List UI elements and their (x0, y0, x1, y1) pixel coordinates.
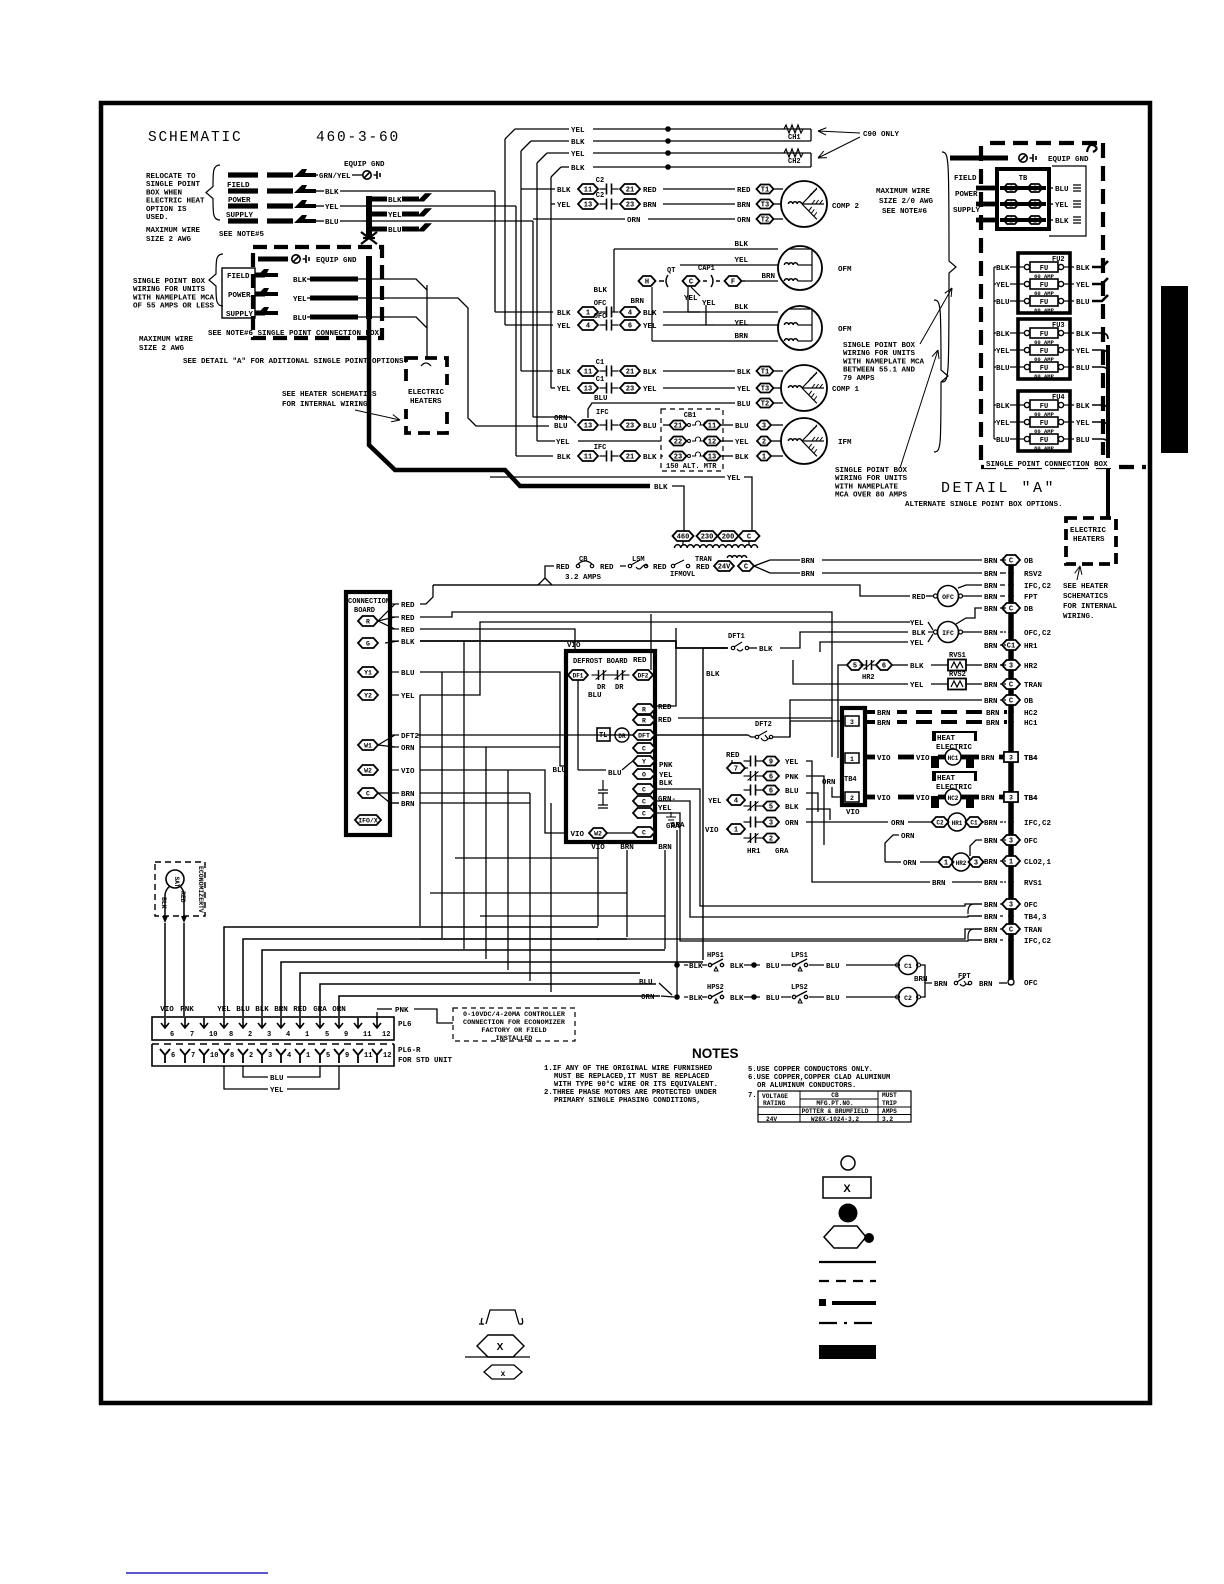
svg-text:BLK: BLK (593, 287, 607, 295)
svg-text:BLU: BLU (1076, 437, 1090, 445)
svg-text:MAXIMUM WIRE: MAXIMUM WIRE (139, 336, 194, 344)
svg-text:TB: TB (1019, 175, 1028, 183)
svg-text:FIELD: FIELD (227, 273, 250, 281)
svg-text:13: 13 (584, 423, 592, 431)
svg-text:W1: W1 (364, 743, 372, 750)
svg-text:BLU: BLU (826, 963, 840, 971)
svg-text:ORN: ORN (901, 833, 915, 841)
svg-text:BRN: BRN (984, 571, 998, 579)
svg-text:NOTES: NOTES (692, 1046, 739, 1061)
svg-text:BLK: BLK (571, 139, 585, 147)
svg-text:T1: T1 (761, 187, 769, 195)
svg-text:HR1: HR1 (1024, 643, 1038, 651)
svg-text:BLK: BLK (643, 310, 657, 318)
svg-text:X: X (497, 1342, 504, 1353)
svg-text:3.2 AMPS: 3.2 AMPS (565, 574, 602, 582)
svg-text:BLU: BLU (766, 995, 780, 1003)
svg-text:POTTER & BRUMFIELD: POTTER & BRUMFIELD (802, 1108, 869, 1115)
svg-text:200: 200 (722, 534, 735, 542)
svg-text:LPS2: LPS2 (791, 984, 808, 992)
svg-text:OFC: OFC (1024, 838, 1038, 846)
svg-text:YEL: YEL (388, 212, 402, 220)
svg-text:8: 8 (229, 1031, 233, 1039)
svg-text:BLK: BLK (388, 197, 402, 205)
svg-text:3: 3 (268, 1052, 272, 1060)
svg-text:BRN: BRN (979, 981, 993, 989)
svg-text:11: 11 (584, 454, 592, 462)
svg-text:RED: RED (653, 564, 667, 572)
svg-text:1: 1 (762, 454, 766, 462)
svg-text:C: C (642, 830, 646, 837)
svg-text:6: 6 (769, 788, 773, 796)
svg-text:BLU: BLU (554, 423, 568, 431)
svg-text:C1: C1 (904, 963, 912, 970)
svg-text:FIELD: FIELD (954, 175, 977, 183)
svg-text:BLK: BLK (325, 189, 339, 197)
svg-text:YEL: YEL (571, 127, 585, 135)
svg-text:OFC,C2: OFC,C2 (1024, 630, 1052, 638)
svg-text:T2: T2 (761, 217, 769, 225)
svg-text:12: 12 (382, 1031, 390, 1039)
svg-text:OFC: OFC (1024, 980, 1038, 988)
svg-text:2.THREE PHASE MOTORS ARE PROTE: 2.THREE PHASE MOTORS ARE PROTECTED UNDER (544, 1089, 717, 1097)
svg-text:YEL: YEL (1055, 202, 1069, 210)
svg-text:4: 4 (287, 1052, 291, 1060)
svg-text:YEL: YEL (557, 202, 571, 210)
svg-text:2: 2 (249, 1052, 253, 1060)
svg-text:EQUIP GND: EQUIP GND (1048, 156, 1089, 164)
svg-text:YEL: YEL (1076, 420, 1090, 428)
svg-text:YEL: YEL (996, 420, 1010, 428)
svg-text:1: 1 (850, 756, 854, 763)
svg-text:HPS2: HPS2 (707, 984, 724, 992)
svg-text:ELECTRIC HEAT: ELECTRIC HEAT (146, 198, 205, 206)
svg-text:T2: T2 (761, 401, 769, 409)
svg-text:YEL: YEL (571, 151, 585, 159)
svg-text:DFT: DFT (638, 733, 650, 740)
svg-text:BRN: BRN (801, 558, 815, 566)
svg-text:YEL: YEL (996, 348, 1010, 356)
svg-text:YEL: YEL (325, 204, 339, 212)
svg-text:C: C (366, 791, 370, 798)
svg-text:HR1: HR1 (747, 848, 761, 856)
svg-text:MUST: MUST (882, 1092, 897, 1099)
svg-text:5: 5 (853, 663, 857, 671)
svg-text:C: C (689, 279, 693, 287)
svg-text:BLK: BLK (734, 304, 748, 312)
svg-text:FU: FU (1040, 299, 1048, 307)
svg-text:YEL: YEL (734, 320, 748, 328)
svg-text:YEL: YEL (270, 1087, 284, 1095)
svg-text:BRN: BRN (643, 202, 657, 210)
svg-text:RED: RED (293, 1006, 307, 1014)
svg-text:COMP 2: COMP 2 (832, 203, 860, 211)
svg-text:9: 9 (344, 1031, 348, 1039)
svg-text:DFT1: DFT1 (728, 633, 745, 641)
svg-text:VIO: VIO (877, 755, 891, 763)
svg-text:BLK: BLK (557, 187, 571, 195)
svg-text:FU: FU (1040, 331, 1048, 339)
svg-text:BRN: BRN (984, 594, 998, 602)
svg-text:GRA: GRA (313, 1006, 327, 1014)
svg-text:11: 11 (363, 1031, 371, 1039)
svg-text:BLU: BLU (766, 963, 780, 971)
svg-text:YEL: YEL (1076, 348, 1090, 356)
svg-text:CH1: CH1 (788, 134, 801, 142)
svg-text:YEL: YEL (557, 323, 571, 331)
svg-text:C: C (642, 787, 646, 794)
svg-text:ORN: ORN (785, 820, 799, 828)
svg-text:3: 3 (1009, 902, 1013, 910)
svg-text:WITH NAMEPLATE: WITH NAMEPLATE (835, 483, 899, 491)
svg-text:1: 1 (305, 1031, 309, 1039)
svg-text:BLK: BLK (910, 663, 924, 671)
svg-text:ORN: ORN (401, 745, 415, 753)
svg-text:13: 13 (584, 202, 592, 210)
svg-text:HR1: HR1 (952, 820, 963, 827)
svg-text:C: C (1009, 927, 1013, 935)
svg-text:11: 11 (364, 1052, 372, 1060)
svg-text:OFM: OFM (838, 266, 852, 274)
svg-text:BLK: BLK (912, 630, 926, 638)
svg-text:HEAT: HEAT (937, 735, 956, 743)
svg-text:BRN: BRN (981, 795, 995, 803)
svg-text:TRIP: TRIP (882, 1100, 897, 1107)
svg-text:IFC,C2: IFC,C2 (1024, 820, 1052, 828)
svg-text:WITH NAMEPLATE MCA: WITH NAMEPLATE MCA (133, 294, 215, 302)
svg-text:11: 11 (584, 369, 592, 377)
svg-text:BLU: BLU (401, 670, 415, 678)
svg-text:BRN: BRN (984, 682, 998, 690)
svg-text:YEL: YEL (643, 386, 657, 394)
svg-text:BLU: BLU (325, 219, 339, 227)
svg-text:BLU: BLU (270, 1075, 284, 1083)
svg-text:EQUIP GND: EQUIP GND (316, 257, 357, 265)
svg-text:RED: RED (912, 594, 926, 602)
svg-text:BRN: BRN (984, 698, 998, 706)
svg-text:BLU: BLU (639, 979, 653, 987)
svg-text:C: C (642, 799, 646, 806)
svg-text:C: C (1009, 698, 1013, 706)
svg-text:SIZE 2 AWG: SIZE 2 AWG (139, 345, 185, 353)
svg-text:C: C (1009, 682, 1013, 690)
svg-text:HEATERS: HEATERS (1073, 536, 1105, 544)
svg-text:RED: RED (600, 564, 614, 572)
svg-text:BLU: BLU (996, 299, 1010, 307)
svg-text:DB: DB (1024, 606, 1034, 614)
svg-text:MAXIMUM WIRE: MAXIMUM WIRE (876, 188, 931, 196)
svg-text:YEL: YEL (737, 386, 751, 394)
svg-text:IFC,C2: IFC,C2 (1024, 938, 1052, 946)
svg-text:21: 21 (626, 187, 634, 195)
svg-text:BRN: BRN (984, 938, 998, 946)
svg-text:LPS1: LPS1 (791, 952, 808, 960)
svg-text:BOARD: BOARD (354, 607, 375, 615)
svg-text:VIO: VIO (401, 768, 415, 776)
svg-text:C1: C1 (970, 820, 978, 827)
svg-text:IFC: IFC (596, 409, 609, 417)
svg-text:DR: DR (618, 733, 626, 740)
svg-text:6: 6 (171, 1052, 175, 1060)
svg-text:BRN: BRN (734, 333, 748, 341)
svg-text:ELECTRIC: ELECTRIC (1070, 527, 1107, 535)
svg-text:RED: RED (696, 564, 710, 572)
svg-text:RED: RED (658, 717, 672, 725)
svg-text:YEL: YEL (910, 682, 924, 690)
svg-text:SCHEMATICS: SCHEMATICS (1063, 593, 1109, 601)
svg-text:OF 55 AMPS OR LESS: OF 55 AMPS OR LESS (133, 303, 215, 311)
svg-text:ORN: ORN (891, 820, 905, 828)
svg-text:60 AMP: 60 AMP (1034, 307, 1055, 314)
svg-text:WIRING FOR UNITS: WIRING FOR UNITS (133, 286, 206, 294)
svg-text:1: 1 (306, 1052, 310, 1060)
svg-text:SUPPLY: SUPPLY (226, 311, 254, 319)
svg-text:ORN: ORN (737, 217, 751, 225)
svg-text:5: 5 (326, 1052, 330, 1060)
svg-text:BLU: BLU (1076, 299, 1090, 307)
svg-text:23: 23 (626, 386, 634, 394)
svg-text:BLK: BLK (643, 369, 657, 377)
svg-text:BLK: BLK (996, 403, 1010, 411)
svg-text:BRN: BRN (984, 859, 998, 867)
svg-text:24V: 24V (766, 1116, 777, 1123)
svg-text:BLU: BLU (826, 995, 840, 1003)
svg-text:BLU: BLU (996, 365, 1010, 373)
svg-text:YEL: YEL (702, 300, 716, 308)
svg-text:HC1: HC1 (1024, 720, 1038, 728)
svg-text:SAT: SAT (173, 877, 180, 888)
svg-text:IFMOVL: IFMOVL (670, 571, 695, 579)
svg-text:T3: T3 (761, 386, 769, 394)
svg-text:3: 3 (769, 820, 773, 828)
svg-text:GRN/YEL: GRN/YEL (319, 173, 351, 181)
svg-text:ALTERNATE SINGLE POINT BOX OPT: ALTERNATE SINGLE POINT BOX OPTIONS. (905, 501, 1063, 509)
svg-text:ORN: ORN (627, 217, 641, 225)
svg-text:PNK: PNK (659, 762, 673, 770)
svg-text:RSV2: RSV2 (1024, 571, 1043, 579)
svg-text:YEL: YEL (996, 282, 1010, 290)
svg-text:WIRING FOR UNITS: WIRING FOR UNITS (835, 475, 908, 483)
svg-text:DFT2: DFT2 (755, 721, 772, 729)
svg-text:GRN-: GRN- (658, 796, 676, 804)
svg-text:ORN: ORN (554, 415, 568, 423)
svg-text:BRN: BRN (984, 927, 998, 935)
svg-text:6: 6 (628, 323, 632, 331)
svg-text:BRN: BRN (984, 902, 998, 910)
svg-text:BRN: BRN (984, 558, 998, 566)
svg-text:3: 3 (850, 719, 854, 726)
svg-text:12: 12 (383, 1052, 391, 1060)
svg-text:1: 1 (944, 860, 948, 868)
svg-text:FOR INTERNAL WIRING.: FOR INTERNAL WIRING. (282, 401, 372, 409)
svg-text:VIO: VIO (160, 1006, 174, 1014)
svg-text:RED: RED (401, 627, 415, 635)
svg-text:4: 4 (734, 798, 738, 806)
svg-text:BLK: BLK (643, 454, 657, 462)
svg-text:BLU: BLU (594, 395, 608, 403)
svg-text:RELOCATE TO: RELOCATE TO (146, 173, 196, 181)
svg-text:FOR INTERNAL: FOR INTERNAL (1063, 603, 1118, 611)
svg-text:460: 460 (677, 534, 690, 542)
svg-text:ORN: ORN (903, 860, 917, 868)
svg-text:Y2: Y2 (364, 693, 372, 700)
svg-text:TB4: TB4 (844, 776, 857, 784)
svg-text:BLK: BLK (735, 454, 749, 462)
svg-text:BLK: BLK (401, 639, 415, 647)
svg-text:10: 10 (210, 1052, 218, 1060)
svg-text:G: G (366, 641, 370, 648)
svg-text:OR ALUMINUM CONDUCTORS.: OR ALUMINUM CONDUCTORS. (757, 1082, 856, 1090)
svg-text:BLU: BLU (1076, 365, 1090, 373)
svg-text:BRN: BRN (981, 755, 995, 763)
svg-text:OFC: OFC (942, 594, 954, 601)
svg-text:OFC: OFC (1024, 902, 1038, 910)
svg-text:H: H (645, 279, 649, 287)
svg-text:BLK: BLK (734, 241, 748, 249)
svg-text:T3: T3 (761, 202, 769, 210)
svg-text:YEL: YEL (659, 772, 673, 780)
svg-text:BRN: BRN (984, 630, 998, 638)
svg-text:SINGLE POINT BOX: SINGLE POINT BOX (133, 278, 206, 286)
svg-text:COMP 1: COMP 1 (832, 386, 860, 394)
svg-text:HR2: HR2 (1024, 663, 1038, 671)
svg-text:8: 8 (230, 1052, 234, 1060)
svg-text:WITH TYPE 90°C WIRE OR ITS EQU: WITH TYPE 90°C WIRE OR ITS EQUIVALENT. (554, 1080, 718, 1089)
svg-text:DF1: DF1 (573, 673, 584, 680)
svg-text:23: 23 (674, 454, 682, 462)
svg-text:RED: RED (726, 752, 740, 760)
svg-text:BRN: BRN (986, 710, 1000, 718)
svg-text:C: C (744, 564, 748, 572)
svg-text:TB4,3: TB4,3 (1024, 914, 1047, 922)
svg-text:CLO2,1: CLO2,1 (1024, 859, 1052, 867)
svg-text:BLK: BLK (689, 995, 703, 1003)
svg-text:BLK: BLK (571, 165, 585, 173)
svg-text:BLK: BLK (659, 780, 673, 788)
svg-text:10: 10 (209, 1031, 217, 1039)
svg-text:C2: C2 (904, 995, 912, 1002)
svg-text:SIZE 2/0 AWG: SIZE 2/0 AWG (879, 198, 934, 206)
svg-text:6: 6 (769, 774, 773, 782)
svg-text:12: 12 (708, 439, 716, 447)
svg-text:BLU: BLU (735, 423, 749, 431)
svg-text:ECONOMIZERTV: ECONOMIZERTV (197, 866, 204, 913)
svg-text:HC1: HC1 (948, 755, 959, 762)
svg-text:13: 13 (708, 454, 716, 462)
svg-text:F: F (731, 279, 735, 287)
svg-text:FU: FU (1040, 348, 1048, 356)
svg-text:C: C (642, 811, 646, 818)
svg-text:HPS1: HPS1 (707, 952, 724, 960)
svg-text:W28X-1024-3,2: W28X-1024-3,2 (811, 1116, 860, 1123)
svg-text:BLK: BLK (730, 995, 744, 1003)
svg-text:BRN: BRN (877, 720, 891, 728)
svg-text:YEL: YEL (910, 640, 924, 648)
svg-text:YEL: YEL (785, 759, 799, 767)
svg-text:BRN: BRN (737, 202, 751, 210)
svg-text:BRN: BRN (984, 914, 998, 922)
svg-text:SINGLE POINT CONNECTION BOX: SINGLE POINT CONNECTION BOX (986, 461, 1108, 469)
svg-text:C1: C1 (596, 376, 604, 384)
svg-text:Y1: Y1 (364, 670, 372, 677)
svg-text:HR2: HR2 (862, 674, 875, 682)
svg-text:60 AMP: 60 AMP (1034, 445, 1055, 452)
svg-text:HEAT: HEAT (937, 775, 956, 783)
svg-text:CAP1: CAP1 (698, 265, 715, 273)
svg-text:VOLTAGE: VOLTAGE (762, 1093, 788, 1100)
svg-text:21: 21 (674, 423, 682, 431)
svg-text:BOX WHEN: BOX WHEN (146, 189, 182, 197)
svg-text:FU: FU (1040, 282, 1048, 290)
svg-text:W2: W2 (594, 831, 602, 838)
svg-text:PNK: PNK (785, 774, 799, 782)
svg-text:3: 3 (1009, 838, 1013, 846)
svg-text:3: 3 (762, 423, 766, 431)
svg-text:VIO: VIO (846, 809, 860, 817)
svg-text:PL6: PL6 (398, 1021, 412, 1029)
svg-text:BLU: BLU (1055, 186, 1069, 194)
svg-text:RED: RED (737, 187, 751, 195)
svg-text:9: 9 (769, 759, 773, 767)
svg-text:4: 4 (286, 1031, 290, 1039)
svg-text:R: R (642, 707, 646, 714)
svg-text:BRN: BRN (877, 710, 891, 718)
svg-text:1: 1 (586, 310, 590, 318)
svg-text:TRAN: TRAN (1024, 682, 1042, 690)
svg-text:21: 21 (626, 454, 634, 462)
svg-text:ELECTRIC: ELECTRIC (408, 389, 445, 397)
svg-text:AMPS: AMPS (882, 1108, 897, 1115)
svg-text:BLK: BLK (759, 646, 773, 654)
svg-text:SCHEMATIC: SCHEMATIC (148, 130, 243, 146)
svg-text:0-10VDC/4-20MA CONTROLLER: 0-10VDC/4-20MA CONTROLLER (463, 1011, 566, 1019)
svg-text:BRN: BRN (761, 273, 775, 281)
svg-text:6.USE COPPER,COPPER CLAD ALUMI: 6.USE COPPER,COPPER CLAD ALUMINUM (748, 1074, 890, 1082)
svg-text:YEL: YEL (293, 296, 307, 304)
svg-text:GRA: GRA (775, 848, 789, 856)
svg-text:IFC: IFC (594, 444, 607, 452)
svg-text:BLK: BLK (293, 277, 307, 285)
svg-text:WITH NAMEPLATE MCA: WITH NAMEPLATE MCA (843, 358, 925, 366)
svg-text:BLK: BLK (996, 331, 1010, 339)
svg-text:22: 22 (674, 439, 682, 447)
svg-text:BRN: BRN (984, 880, 998, 888)
svg-text:R: R (366, 619, 370, 626)
svg-text:6: 6 (170, 1031, 174, 1039)
svg-text:C: C (747, 534, 751, 542)
svg-text:BLK: BLK (160, 897, 167, 909)
svg-text:BLK: BLK (706, 671, 720, 679)
svg-text:WIRING.: WIRING. (1063, 613, 1095, 621)
svg-text:11: 11 (584, 187, 592, 195)
svg-text:YEL: YEL (727, 475, 741, 483)
svg-text:T1: T1 (761, 369, 769, 377)
svg-text:YEL: YEL (684, 295, 698, 303)
svg-text:X: X (843, 1183, 851, 1195)
svg-text:RED: RED (401, 615, 415, 623)
svg-text:BLU: BLU (785, 788, 799, 796)
svg-text:RVS1: RVS1 (1024, 880, 1043, 888)
svg-text:SUPPLY: SUPPLY (953, 207, 981, 215)
svg-text:BLK: BLK (1076, 265, 1090, 273)
svg-text:VIO: VIO (916, 795, 930, 803)
svg-text:C: C (1009, 606, 1013, 614)
svg-text:BLK: BLK (1076, 403, 1090, 411)
svg-text:BRN: BRN (801, 571, 815, 579)
svg-text:2: 2 (762, 439, 766, 447)
svg-text:BLK: BLK (737, 369, 751, 377)
svg-text:7: 7 (734, 766, 738, 774)
